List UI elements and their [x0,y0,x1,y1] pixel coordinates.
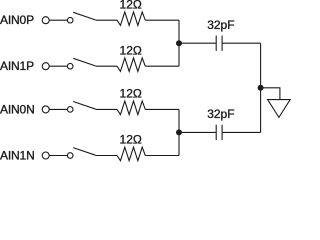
svg-text:AIN0N: AIN0N [0,102,35,116]
svg-text:12Ω: 12Ω [120,87,142,101]
svg-text:32pF: 32pF [207,107,234,121]
svg-text:12Ω: 12Ω [120,133,142,147]
svg-text:AIN0P: AIN0P [0,13,34,27]
svg-text:32pF: 32pF [207,18,234,32]
svg-text:12Ω: 12Ω [120,0,142,11]
svg-text:12Ω: 12Ω [120,43,142,57]
svg-text:AIN1N: AIN1N [0,149,35,163]
svg-text:AIN1P: AIN1P [0,59,34,73]
